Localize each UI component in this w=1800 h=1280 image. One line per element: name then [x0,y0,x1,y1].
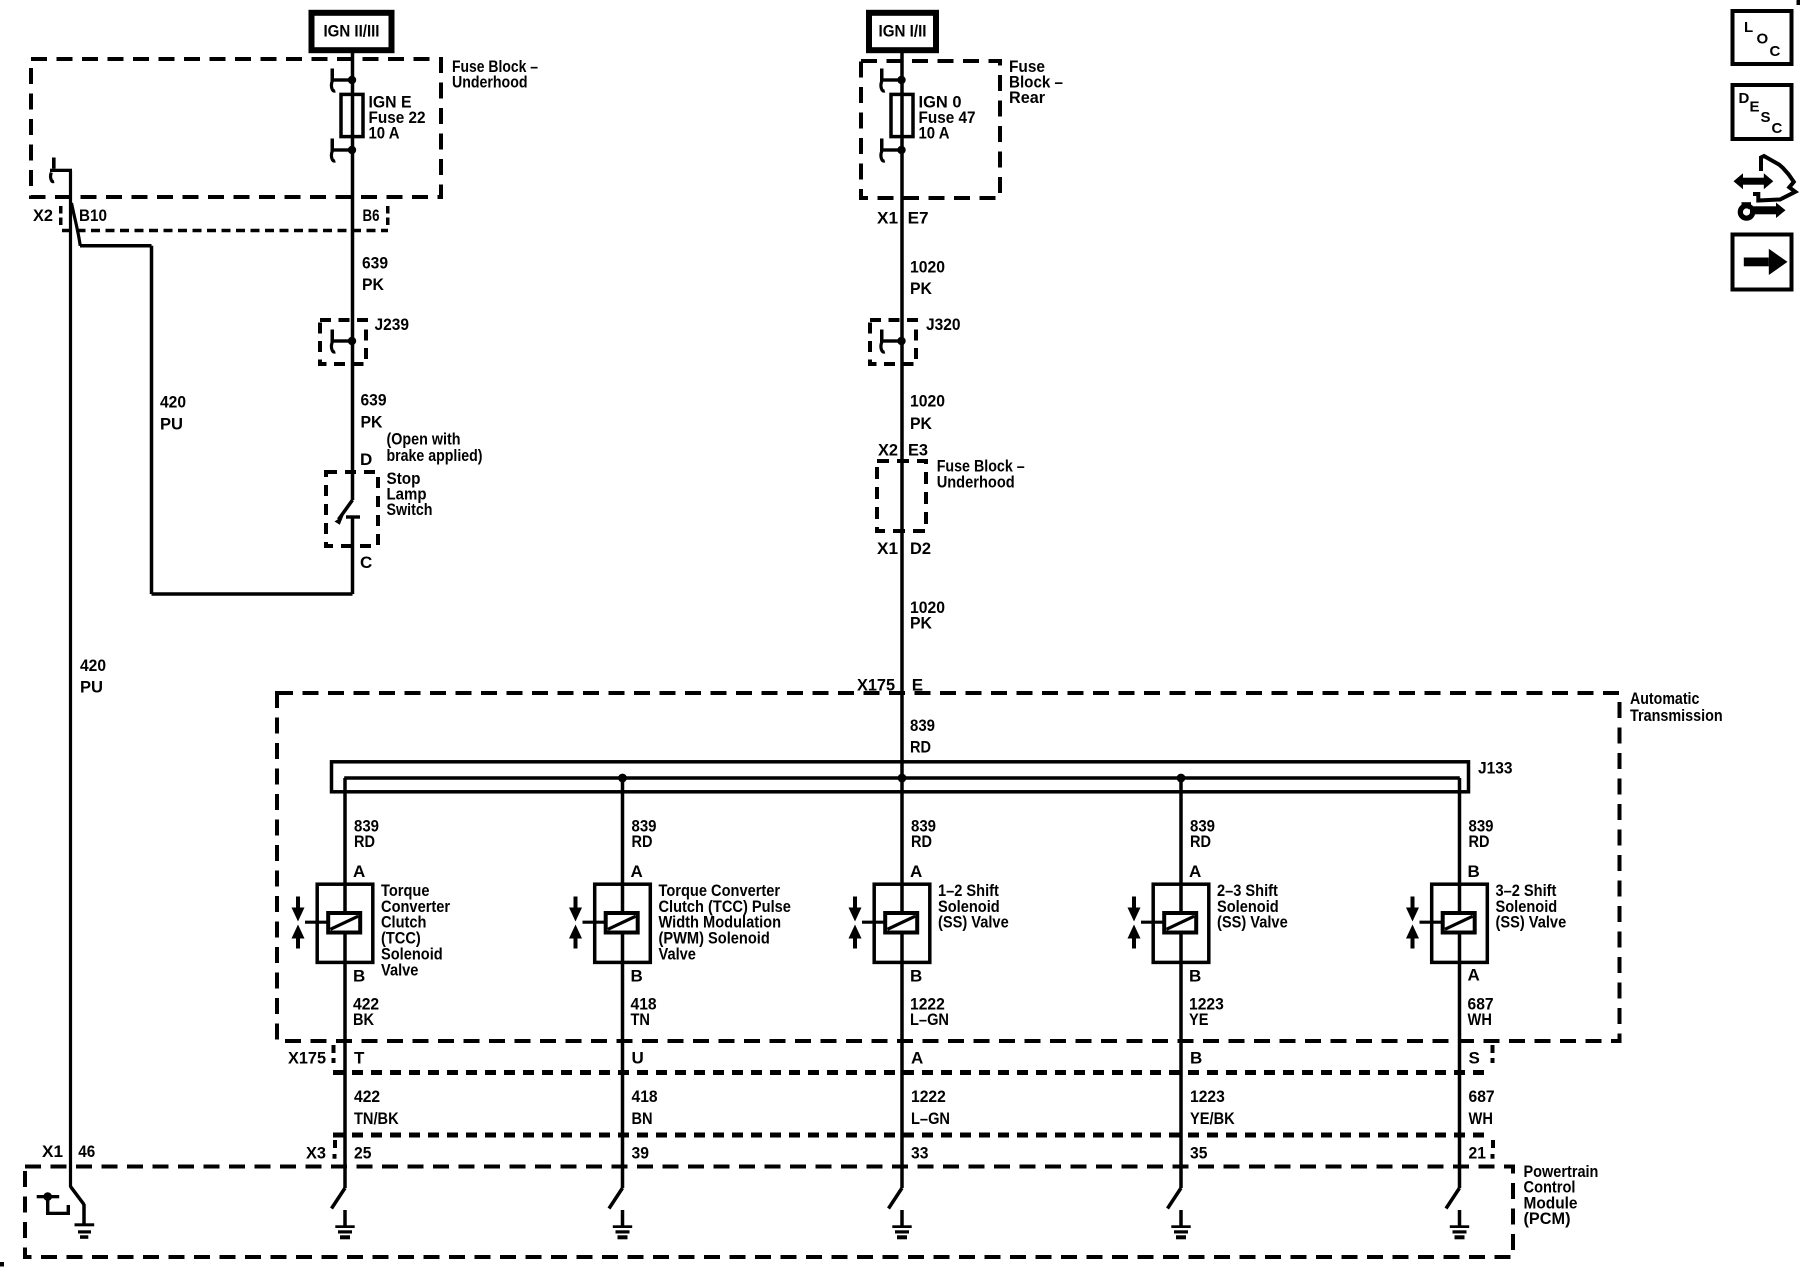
svg-text:brake applied): brake applied) [387,446,483,465]
svg-text:E: E [1750,98,1760,115]
svg-text:C: C [360,553,372,572]
svg-text:X1: X1 [877,539,898,558]
svg-text:X1: X1 [42,1142,63,1161]
svg-text:S: S [1761,109,1771,126]
svg-text:Underhood: Underhood [452,73,528,92]
svg-text:PK: PK [361,412,384,431]
svg-text:639: 639 [361,390,387,409]
svg-text:420: 420 [160,392,186,411]
svg-text:L–GN: L–GN [911,1109,950,1128]
svg-text:B6: B6 [363,206,380,225]
svg-text:X1: X1 [877,208,898,227]
svg-text:IGN II/III: IGN II/III [324,21,380,40]
svg-text:PK: PK [910,613,933,632]
svg-text:418: 418 [632,1087,658,1106]
svg-text:J239: J239 [375,315,410,334]
svg-text:D: D [360,450,372,469]
svg-text:B10: B10 [79,206,107,225]
svg-text:T: T [354,1048,365,1067]
svg-text:X175: X175 [857,675,895,694]
svg-text:B: B [1190,1048,1202,1067]
svg-text:YE: YE [1189,1010,1209,1029]
svg-text:1020: 1020 [910,257,945,276]
svg-text:J320: J320 [926,315,961,334]
svg-text:25: 25 [354,1143,371,1162]
svg-text:PK: PK [362,275,385,294]
svg-text:10 A: 10 A [369,124,400,143]
svg-text:B: B [1189,966,1201,985]
svg-text:L–GN: L–GN [910,1010,949,1029]
svg-text:RD: RD [1469,832,1490,851]
svg-text:Underhood: Underhood [937,472,1015,491]
svg-text:U: U [632,1048,644,1067]
svg-text:X2: X2 [878,440,898,459]
svg-text:B: B [1468,862,1480,881]
svg-text:39: 39 [632,1143,649,1162]
svg-text:A: A [631,862,643,881]
svg-text:D2: D2 [910,539,931,558]
svg-text:639: 639 [362,253,388,272]
svg-text:TN: TN [631,1010,651,1029]
svg-text:IGN I/II: IGN I/II [879,21,927,40]
svg-text:Rear: Rear [1009,88,1045,107]
svg-text:839: 839 [910,716,935,735]
svg-text:RD: RD [1190,832,1211,851]
svg-text:RD: RD [632,832,653,851]
svg-text:RD: RD [910,737,931,756]
svg-text:S: S [1469,1048,1480,1067]
svg-text:E: E [912,675,923,694]
svg-text:Valve: Valve [381,960,418,979]
svg-text:WH: WH [1469,1109,1493,1128]
svg-text:B: B [353,966,365,985]
svg-text:(SS) Valve: (SS) Valve [1496,913,1567,932]
svg-text:PK: PK [910,279,933,298]
svg-text:X2: X2 [33,206,53,225]
svg-text:Switch: Switch [387,500,433,519]
svg-text:1223: 1223 [1190,1087,1225,1106]
svg-text:X175: X175 [288,1048,326,1067]
svg-text:B: B [631,966,643,985]
svg-text:A: A [911,1048,923,1067]
svg-text:YE/BK: YE/BK [1190,1109,1235,1128]
svg-text:TN/BK: TN/BK [354,1109,399,1128]
svg-text:21: 21 [1469,1143,1486,1162]
svg-text:RD: RD [911,832,932,851]
svg-text:E3: E3 [908,440,928,459]
svg-text:33: 33 [911,1143,928,1162]
svg-text:BN: BN [632,1109,653,1128]
svg-text:PU: PU [160,414,183,433]
svg-text:1020: 1020 [910,391,945,410]
svg-text:A: A [353,862,365,881]
svg-text:(PCM): (PCM) [1524,1209,1571,1228]
svg-text:(SS) Valve: (SS) Valve [938,913,1009,932]
svg-text:Transmission: Transmission [1630,706,1723,725]
svg-text:PK: PK [910,414,933,433]
svg-text:A: A [1468,965,1480,984]
svg-text:RD: RD [354,832,375,851]
svg-text:O: O [1757,30,1769,47]
svg-text:L: L [1744,19,1753,36]
svg-text:C: C [1770,43,1781,60]
svg-text:BK: BK [353,1010,375,1029]
svg-text:A: A [1189,862,1201,881]
svg-text:D: D [1739,90,1750,107]
svg-text:A: A [910,862,922,881]
svg-text:422: 422 [354,1087,380,1106]
svg-text:B: B [910,966,922,985]
svg-text:1222: 1222 [911,1087,946,1106]
svg-text:(SS) Valve: (SS) Valve [1217,913,1288,932]
svg-text:E7: E7 [908,208,929,227]
svg-text:C: C [1772,120,1783,137]
svg-text:J133: J133 [1478,758,1513,777]
svg-text:687: 687 [1469,1087,1495,1106]
svg-text:WH: WH [1468,1010,1492,1029]
svg-text:10 A: 10 A [919,124,950,143]
svg-text:X3: X3 [306,1143,326,1162]
svg-text:Valve: Valve [659,945,696,964]
svg-text:46: 46 [78,1142,95,1161]
svg-text:PU: PU [80,677,103,696]
svg-text:420: 420 [80,656,106,675]
svg-text:35: 35 [1190,1143,1207,1162]
